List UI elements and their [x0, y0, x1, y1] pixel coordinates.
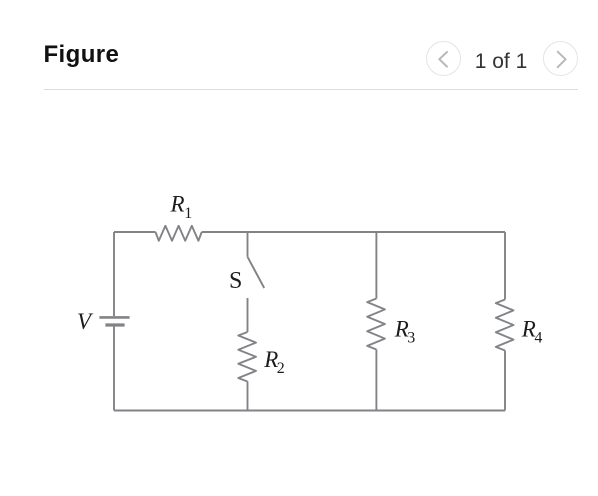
svg-text:3: 3	[407, 329, 415, 346]
svg-text:S: S	[229, 268, 242, 294]
svg-text:4: 4	[534, 329, 542, 346]
svg-text:2: 2	[277, 360, 285, 377]
svg-text:1: 1	[184, 205, 192, 222]
svg-text:V: V	[77, 309, 94, 334]
svg-text:R: R	[170, 192, 185, 217]
